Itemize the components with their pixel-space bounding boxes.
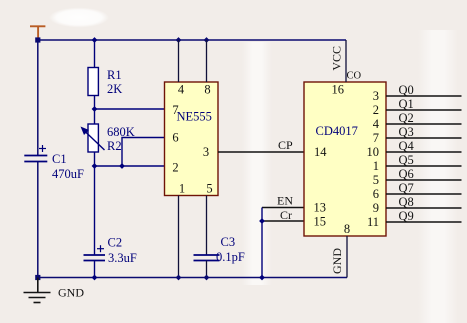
svg-text:5: 5 bbox=[206, 182, 212, 196]
svg-text:GND: GND bbox=[58, 286, 84, 300]
wire pin6 jog bbox=[122, 138, 165, 167]
wire pin3 to CP bbox=[218, 151, 304, 153]
svg-text:3: 3 bbox=[203, 145, 209, 159]
IC U2 CD4017 counter body bbox=[304, 82, 386, 236]
svg-text:14: 14 bbox=[314, 145, 327, 159]
U2 pin 8 stub bbox=[346, 236, 348, 278]
svg-text:3.3uF: 3.3uF bbox=[108, 251, 137, 265]
svg-text:8: 8 bbox=[204, 83, 210, 97]
svg-text:GND: GND bbox=[330, 248, 344, 274]
wire Q1 bbox=[386, 109, 462, 111]
wire Cr bbox=[262, 220, 304, 222]
svg-text:CO: CO bbox=[347, 71, 362, 82]
svg-text:NE555: NE555 bbox=[177, 110, 212, 124]
svg-text:11: 11 bbox=[367, 215, 379, 229]
U2 pin numbers left/top/bottom bbox=[314, 83, 351, 237]
svg-text:R2: R2 bbox=[107, 139, 122, 153]
svg-text:CP: CP bbox=[278, 138, 293, 152]
wire EN bbox=[262, 207, 304, 209]
label C3 value bbox=[216, 235, 245, 264]
U2 pin numbers right bbox=[367, 89, 380, 229]
node junction Cr bbox=[259, 218, 265, 224]
wire left vertical lower (C1 to bottom rail) bbox=[37, 162, 39, 278]
U2 pin 16 stub bbox=[345, 40, 347, 82]
svg-text:16: 16 bbox=[332, 83, 345, 97]
svg-text:Cr: Cr bbox=[280, 208, 292, 222]
svg-text:3: 3 bbox=[373, 89, 379, 103]
wire Q0 bbox=[386, 95, 462, 97]
label R2 value bbox=[107, 125, 135, 153]
node junction R2 bottom bbox=[92, 163, 98, 169]
wire Q5 bbox=[386, 165, 462, 167]
svg-text:6: 6 bbox=[172, 131, 178, 145]
svg-text:EN: EN bbox=[277, 194, 293, 208]
svg-text:Q6: Q6 bbox=[399, 167, 414, 181]
capacitor C3 bbox=[194, 255, 220, 261]
node junction pin8 top bbox=[204, 37, 210, 43]
wire C3 to bottom rail bbox=[206, 261, 208, 278]
node junction R1/R2/pin7 bbox=[92, 106, 98, 112]
node junction pin4 top bbox=[176, 37, 182, 43]
svg-text:R1: R1 bbox=[107, 68, 122, 82]
node junction R1 top bbox=[92, 37, 98, 43]
wire Q7 bbox=[386, 193, 462, 195]
svg-text:2: 2 bbox=[373, 103, 379, 117]
svg-text:Q4: Q4 bbox=[399, 139, 415, 153]
node junction C2 bottom bbox=[92, 275, 98, 281]
svg-text:4: 4 bbox=[373, 117, 380, 131]
label R1 value bbox=[107, 68, 122, 96]
svg-text:10: 10 bbox=[367, 145, 380, 159]
capacitor C1 bbox=[24, 156, 47, 162]
wire left vertical upper (to C1) bbox=[37, 40, 39, 155]
svg-text:Q7: Q7 bbox=[399, 181, 414, 195]
capacitor C2 bbox=[84, 255, 106, 261]
U1 pin 5 stub upper bbox=[206, 196, 208, 256]
wire pin2 bbox=[95, 165, 165, 167]
svg-text:15: 15 bbox=[314, 215, 327, 229]
node junction bottom-left corner bbox=[35, 275, 40, 280]
svg-text:Q0: Q0 bbox=[399, 83, 414, 97]
svg-text:C3: C3 bbox=[221, 235, 236, 249]
ground symbol bbox=[24, 278, 51, 303]
U1 pin 8 stub bbox=[206, 40, 208, 82]
svg-text:6: 6 bbox=[373, 187, 379, 201]
wire Q3 bbox=[386, 137, 462, 139]
wire top rail bbox=[38, 39, 346, 41]
svg-text:1: 1 bbox=[373, 159, 379, 173]
U1 pin numbers bbox=[172, 83, 212, 196]
node junction pin6/pin2 bbox=[119, 163, 125, 169]
svg-text:C2: C2 bbox=[108, 236, 123, 250]
wire C2 to bottom rail bbox=[94, 261, 96, 278]
svg-text:7: 7 bbox=[373, 131, 379, 145]
svg-text:9: 9 bbox=[373, 201, 379, 215]
potentiometer R2 bbox=[81, 109, 105, 166]
wire Q8 bbox=[386, 207, 462, 209]
svg-text:Q3: Q3 bbox=[399, 125, 414, 139]
wire Q6 bbox=[386, 179, 462, 181]
label C2 value bbox=[108, 236, 137, 266]
node junction C3 bottom bbox=[204, 275, 210, 281]
U1 pin 4 stub bbox=[178, 40, 180, 82]
svg-text:C1: C1 bbox=[52, 152, 67, 166]
U1 pin 1 stub bbox=[178, 196, 180, 278]
wire R2 to C2 bbox=[94, 166, 96, 255]
svg-text:4: 4 bbox=[178, 83, 185, 97]
svg-text:2: 2 bbox=[172, 161, 178, 175]
power VCC bar symbol bbox=[30, 26, 45, 40]
svg-text:Q2: Q2 bbox=[399, 111, 414, 125]
C1 plus sign bbox=[39, 145, 46, 152]
label C1 value bbox=[52, 152, 84, 181]
wire Q2 bbox=[386, 123, 462, 125]
svg-text:Q1: Q1 bbox=[399, 97, 414, 111]
svg-text:8: 8 bbox=[344, 222, 350, 236]
svg-text:1: 1 bbox=[179, 182, 185, 196]
resistor R1 bbox=[88, 40, 98, 109]
svg-text:13: 13 bbox=[314, 201, 327, 215]
C2 plus sign bbox=[97, 245, 104, 252]
svg-text:CD4017: CD4017 bbox=[316, 124, 358, 138]
wire Q9 bbox=[386, 221, 462, 223]
IC U1 NE555 timer body bbox=[165, 82, 219, 196]
node junction top-left corner bbox=[35, 37, 40, 42]
wire bottom rail bbox=[38, 277, 347, 279]
svg-text:470uF: 470uF bbox=[52, 167, 84, 181]
node junction pin1 bottom bbox=[176, 275, 182, 281]
svg-text:Q8: Q8 bbox=[399, 195, 414, 209]
node junction EN/Cr bottom bbox=[259, 275, 265, 281]
svg-text:Q5: Q5 bbox=[399, 153, 414, 167]
svg-text:5: 5 bbox=[373, 173, 379, 187]
svg-text:VCC: VCC bbox=[329, 46, 343, 71]
wire pin7 bbox=[95, 108, 165, 110]
svg-text:2K: 2K bbox=[107, 82, 122, 96]
svg-text:0.1pF: 0.1pF bbox=[216, 250, 245, 264]
wire Q4 bbox=[386, 151, 462, 153]
wire EN/Cr to ground rail bbox=[261, 208, 263, 278]
svg-text:Q9: Q9 bbox=[399, 209, 414, 223]
